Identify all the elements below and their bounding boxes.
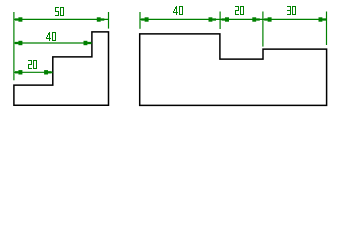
- arrowhead 40 right: [84, 41, 92, 45]
- extension line left of right part: [139, 12, 141, 29]
- extension line at notch left (40/20 boundary): [219, 12, 221, 30]
- arrowhead right-30 right: [319, 17, 327, 21]
- extension line at notch right (20/30 boundary): [262, 12, 264, 47]
- dimension line 20 (left part): [14, 71, 53, 73]
- text 30 right part: [287, 6, 296, 15]
- extension line right of left part (for 50): [108, 12, 110, 29]
- text 20 left part: [28, 60, 37, 69]
- dimension line 40-20-30 (right part): [140, 18, 327, 20]
- dimension line 40 (left part): [14, 42, 92, 44]
- arrowhead 50 right: [97, 17, 105, 21]
- text 50: [55, 7, 64, 16]
- text 40 right part: [173, 6, 183, 15]
- text 20 right part: [235, 6, 244, 15]
- right part outline (notched block): [140, 34, 327, 106]
- arrowhead 20 right: [44, 70, 52, 74]
- arrowhead 40 left: [15, 41, 22, 45]
- arrowhead right-20 right: [252, 17, 260, 21]
- arrowhead right-20 left: [222, 17, 229, 21]
- left part outline (stepped block): [14, 32, 109, 105]
- dimension line 50: [14, 18, 109, 20]
- extension line right of right part: [326, 12, 328, 46]
- arrowhead right-40 right: [209, 17, 217, 21]
- arrowhead right-40 left: [141, 17, 148, 21]
- arrowhead right-30 left: [264, 17, 271, 21]
- extension line left of left part: [13, 12, 15, 80]
- arrowhead 20 left: [15, 70, 22, 74]
- text 40 left part: [46, 32, 56, 41]
- arrowhead 50 left: [15, 17, 22, 21]
